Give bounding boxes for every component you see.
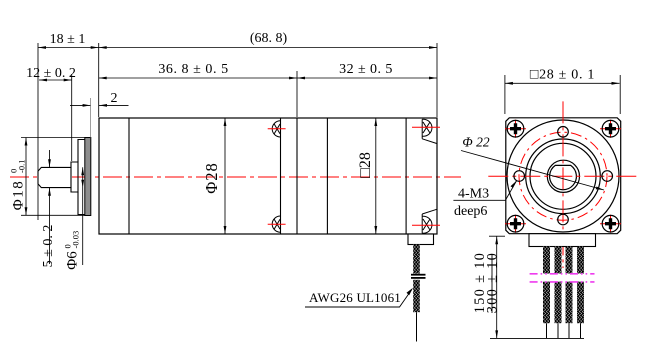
M3 hole top	[558, 127, 569, 138]
screw TR	[600, 120, 621, 138]
5±0.2 arrows (outside pointing in)	[48, 159, 51, 167]
5±0.2 dim line	[49, 150, 51, 167]
front connector block	[529, 234, 596, 247]
svg-text:Φ28: Φ28	[202, 162, 221, 194]
motor rear end-bell line	[405, 118, 407, 234]
dim 2: segments	[70, 104, 91, 106]
recess circle	[530, 143, 596, 209]
wire end ext line	[490, 337, 584, 339]
shaft (Φ6 output shaft, chamfered tip)	[38, 167, 71, 187]
svg-text:32 ± 0. 5: 32 ± 0. 5	[339, 62, 393, 77]
Φ18 ext lines horizontal	[21, 137, 85, 139]
interface screw centerlines (red)	[268, 129, 286, 224]
svg-text:5 ± 0. 2: 5 ± 0. 2	[41, 225, 56, 268]
dim line 36.8	[99, 77, 297, 79]
arrowheads side view	[25, 46, 437, 234]
dim □28±0.1	[505, 75, 620, 114]
svg-text:12 ± 0. 2: 12 ± 0. 2	[26, 66, 76, 81]
Φ6 arrows (inside pointing out)	[81, 167, 84, 175]
leader Φ22	[461, 151, 604, 191]
shaft collar step	[71, 162, 78, 192]
text □28 rotated	[357, 152, 374, 178]
svg-text:Φ18: Φ18	[11, 180, 27, 210]
interface screw head bottom	[272, 216, 280, 232]
svg-text:(68. 8): (68. 8)	[250, 31, 288, 46]
rear screw head top	[422, 119, 437, 143]
svg-text:Φ 22: Φ 22	[462, 135, 489, 150]
front square flange	[506, 118, 621, 234]
side connector block	[408, 234, 434, 245]
ext line shaft tip	[37, 43, 39, 171]
svg-text:-0.03: -0.03	[71, 231, 81, 249]
rear screw centerlines (red)	[412, 127, 440, 225]
svg-text:Φ6: Φ6	[65, 251, 81, 270]
svg-text:36. 8 ± 0. 5: 36. 8 ± 0. 5	[158, 62, 228, 77]
gearbox front section line	[128, 118, 130, 234]
68.8 arrows	[99, 46, 107, 49]
shaft boss circle	[547, 160, 579, 192]
screw BR	[600, 215, 621, 233]
ext line ring face (2 dim)	[90, 98, 92, 138]
M3 hole right	[602, 171, 613, 182]
dim line 12±0.2	[39, 79, 72, 81]
36.8 arrows	[99, 77, 107, 80]
side lead wire end	[416, 312, 418, 341]
text 150±10 rotated	[472, 252, 488, 314]
ext line collar face	[71, 74, 73, 161]
svg-text:2: 2	[111, 91, 118, 106]
text 300±10 rotated with strike	[485, 252, 501, 314]
side lead wire braid lower	[413, 280, 420, 312]
boss circle Φ18	[526, 139, 601, 214]
interface screw head top	[272, 121, 280, 137]
Φ28 arrows	[224, 118, 227, 126]
dim line 18±1	[38, 47, 99, 49]
dim 150/300 ±10	[489, 235, 505, 237]
12±0.2 arrows	[39, 79, 47, 82]
ext line body front face	[98, 43, 100, 117]
motor stator line	[326, 118, 328, 234]
AWG leader	[305, 290, 412, 308]
Φ28 dim line	[224, 118, 226, 234]
svg-text:18 ± 1: 18 ± 1	[50, 32, 86, 47]
pink break lines	[530, 274, 595, 282]
text 5±0.2 rotated	[41, 225, 56, 268]
outer round body circle	[507, 120, 619, 232]
text Φ6 0/-0.03 rotated	[63, 231, 81, 270]
M3 hole left	[514, 171, 525, 182]
svg-text:□28: □28	[357, 152, 374, 178]
motor front face line	[296, 118, 298, 234]
rear screw head bottom	[422, 209, 437, 233]
corner screws	[505, 120, 621, 233]
front red centerline vertical	[562, 101, 564, 268]
dim line 32	[297, 77, 437, 79]
screw BL	[505, 215, 526, 233]
bolt circle red dash-dot	[519, 132, 607, 220]
svg-text:□28 ± 0. 1: □28 ± 0. 1	[530, 68, 595, 83]
svg-text:deep6: deep6	[454, 204, 487, 219]
wire break symbol	[411, 274, 426, 276]
32 arrows	[297, 77, 305, 80]
2 dim arrows	[83, 104, 91, 107]
Φ18 dim line	[25, 138, 27, 216]
Φ18 arrows	[25, 138, 28, 146]
svg-text:AWG26 UL1061: AWG26 UL1061	[309, 290, 401, 305]
ext line body rear face	[436, 43, 438, 117]
screw TL	[505, 120, 526, 138]
leader 4-M3	[453, 181, 516, 201]
18±1 arrows	[38, 46, 46, 49]
centerline side view	[10, 176, 461, 178]
boss cylinder	[78, 140, 85, 215]
text Φ28 rotated	[202, 162, 221, 194]
□28 dim line	[375, 118, 377, 234]
M3 hole bottom	[558, 214, 569, 225]
svg-text:300 ± 10: 300 ± 10	[485, 252, 501, 314]
side lead wire braid upper	[413, 245, 420, 274]
dim line (68.8)	[99, 47, 437, 49]
gearbox body outline	[99, 118, 437, 234]
svg-text:-0.1: -0.1	[17, 160, 27, 173]
shaft circle with flat	[550, 165, 577, 189]
front red centerline horizontal	[488, 175, 638, 177]
Φ6 dim line	[82, 167, 84, 265]
lead wires front (4 braided)	[543, 247, 584, 324]
gearbox/motor interface line	[280, 118, 282, 234]
ext line motor front	[296, 71, 298, 117]
□28 arrows	[374, 118, 377, 126]
text Φ18 0/-0.1 rotated	[9, 160, 27, 211]
wire ends thin	[547, 323, 581, 338]
pilot ring plate Φ18	[85, 138, 91, 216]
svg-text:4-M3: 4-M3	[458, 187, 489, 202]
